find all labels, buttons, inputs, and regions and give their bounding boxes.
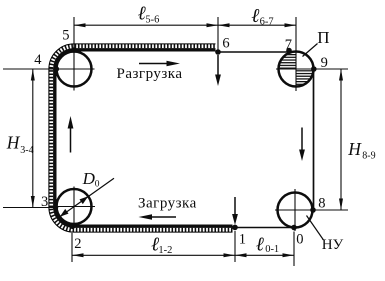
dimension H3-4 top arrowhead — [31, 69, 35, 81]
dimension l0-1 right arrowhead — [283, 253, 295, 257]
node 7 dot — [286, 48, 292, 54]
discharge down arrow at node 6 — [217, 55, 219, 76]
svg-text:0-1: 0-1 — [265, 244, 279, 255]
extension line at node 6 — [217, 17, 219, 52]
node 9 dot — [311, 66, 317, 72]
dimension l1-2 right arrowhead — [224, 253, 236, 257]
loading direction arrow (left) — [150, 216, 176, 218]
svg-text:8: 8 — [318, 195, 325, 211]
D0 diameter arrow — [60, 178, 114, 216]
svg-text:Разгрузка: Разгрузка — [117, 66, 183, 82]
belt plain segment 6 to 7 — [218, 51, 293, 53]
svg-text:3-4: 3-4 — [20, 145, 33, 156]
belt carrying run inner solid edge — [55, 50, 233, 226]
extension line at node 2 — [71, 233, 73, 262]
belt carrying run outer thin edge — [49, 44, 233, 232]
drum A crosshair vertical / extension of node 5 — [73, 17, 75, 91]
drum A crosshair horizontal — [54, 68, 95, 70]
node 3 dot — [53, 205, 59, 211]
svg-text:0: 0 — [296, 232, 303, 248]
extension line at node 1 — [234, 231, 236, 262]
node 6 dot — [215, 49, 221, 55]
node 0 dot — [291, 225, 297, 231]
dimension l1-2 left arrowhead — [72, 253, 84, 257]
node 4 dot — [54, 66, 60, 72]
svg-text:4: 4 — [34, 52, 42, 68]
svg-text:3: 3 — [41, 194, 48, 210]
dimension l6-7 right arrowhead — [285, 23, 297, 27]
dimension H8-9 line — [340, 69, 342, 210]
node 8 dot — [310, 207, 316, 213]
loading down arrow at node 1 — [234, 197, 236, 216]
svg-text:НУ: НУ — [322, 237, 344, 253]
dimension l1-2 line — [72, 254, 235, 256]
drum D crosshair horizontal — [54, 206, 95, 208]
svg-text:0: 0 — [95, 179, 100, 189]
dimension H3-4 line — [32, 69, 34, 208]
unloading direction arrow (right) — [139, 63, 168, 65]
belt plain segment 0 to 1 — [235, 227, 294, 229]
belt travel down arrow right side — [301, 128, 303, 152]
dimension l6-7 line — [218, 24, 296, 26]
belt carrying run 1-2-3-4-5-6 outer dashed band — [51, 46, 233, 230]
dimension l5-6 line — [74, 24, 218, 26]
belt return segment 9 to 8 — [313, 69, 315, 210]
extension line at node 0 — [293, 232, 295, 267]
drum B hatched upper-left quadrant — [279, 52, 297, 70]
node 5 dot — [71, 47, 77, 53]
drum C tension pulley (НУ) — [278, 193, 313, 228]
svg-text:6: 6 — [222, 35, 229, 51]
svg-text:5-6: 5-6 — [145, 14, 159, 25]
extension line of node 4 — [3, 68, 56, 70]
extension line of node 3 — [3, 207, 54, 209]
svg-text:2: 2 — [74, 236, 81, 252]
dimension l6-7 left arrowhead — [218, 23, 230, 27]
dimension l5-6 right arrowhead — [207, 23, 219, 27]
drum C crosshair horizontal / extension of node 8 — [275, 209, 348, 211]
dimension l0-1 line — [235, 254, 294, 256]
leader line to НУ label — [307, 216, 324, 241]
drum D bottom-left pulley — [57, 189, 92, 224]
svg-text:D: D — [82, 169, 96, 188]
dimension l5-6 left arrowhead — [74, 23, 86, 27]
svg-text:H: H — [347, 139, 362, 159]
dimension H8-9 bottom arrowhead — [339, 199, 343, 211]
dimension H8-9 top arrowhead — [339, 69, 343, 81]
leader line to П label — [303, 44, 318, 57]
svg-text:6-7: 6-7 — [260, 17, 274, 28]
node 2 dot — [70, 224, 76, 230]
drum A top-left pulley — [57, 52, 92, 87]
drum C crosshair vertical — [294, 189, 296, 231]
drum B hatched lower-right quadrant — [296, 69, 314, 87]
belt travel up arrow left side — [70, 127, 72, 153]
svg-text:1: 1 — [239, 231, 246, 247]
dimension H3-4 bottom arrowhead — [31, 196, 35, 208]
node 1 dot — [232, 225, 238, 231]
svg-text:ℓ: ℓ — [256, 234, 265, 255]
svg-text:7: 7 — [285, 37, 292, 53]
dimension l0-1 left arrowhead — [235, 253, 247, 257]
svg-text:8-9: 8-9 — [362, 150, 375, 161]
drum B crosshair vertical / extension of node 7 — [295, 17, 297, 91]
svg-text:H: H — [6, 132, 21, 152]
svg-text:5: 5 — [62, 28, 69, 44]
drum B crosshair horizontal / extension of node 9 — [276, 68, 348, 70]
drum D crosshair vertical — [73, 187, 75, 227]
drum B drive pulley (П) — [279, 52, 314, 87]
svg-text:9: 9 — [321, 55, 328, 71]
svg-text:Загрузка: Загрузка — [138, 195, 197, 211]
svg-text:П: П — [317, 28, 329, 47]
svg-text:1-2: 1-2 — [158, 245, 172, 256]
